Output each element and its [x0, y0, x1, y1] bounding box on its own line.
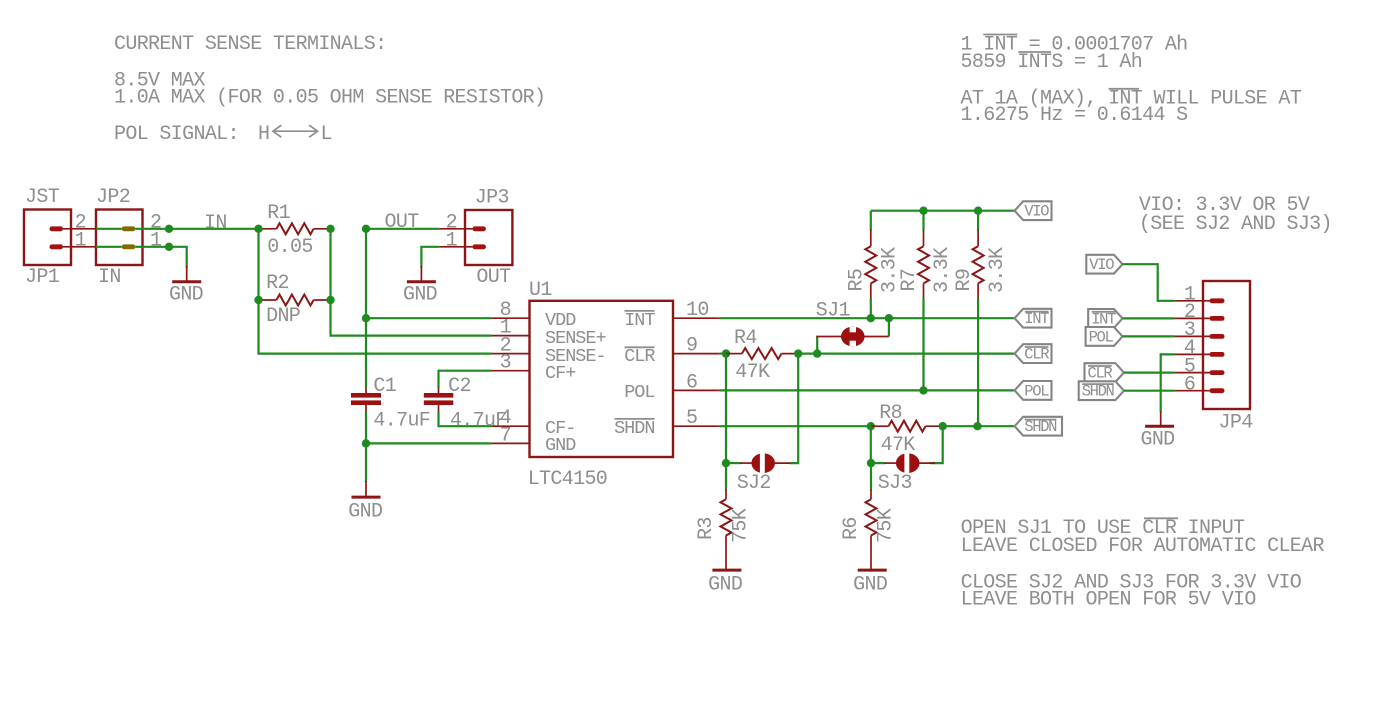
svg-text:1.0A MAX (FOR 0.05 OHM SENSE R: 1.0A MAX (FOR 0.05 OHM SENSE RESISTOR): [114, 87, 545, 110]
wire OUT net row A to JP3: [366, 228, 439, 230]
net flag VIO (rail): [1015, 201, 1052, 220]
connector JP4: [1203, 281, 1250, 409]
net flag POL (JP4): [1086, 327, 1123, 346]
svg-text:10: 10: [686, 299, 709, 322]
svg-text:IN: IN: [98, 266, 121, 289]
ground symbol under R3: [712, 569, 741, 572]
svg-text:GND: GND: [853, 574, 887, 597]
svg-text:R8: R8: [879, 402, 902, 425]
op-amp/IC U1 LTC4150: [530, 301, 674, 457]
svg-text:SHDN: SHDN: [1082, 383, 1115, 401]
svg-text:CLR: CLR: [1024, 346, 1049, 364]
svg-text:LEAVE CLOSED FOR AUTOMATIC CLE: LEAVE CLOSED FOR AUTOMATIC CLEAR: [961, 535, 1325, 558]
svg-text:H: H: [258, 123, 269, 146]
svg-text:GND: GND: [545, 435, 576, 456]
solder jumper SJ2 (open): [722, 459, 730, 467]
wire CF+ net: [439, 371, 492, 388]
junction row B: [165, 243, 173, 251]
JP4 pads and stubs: [1175, 300, 1210, 302]
net flag SHDN: [1015, 417, 1062, 436]
ground symbol at JP4: [1160, 411, 1162, 426]
wire CLR to JP4 pin5: [1124, 372, 1175, 374]
svg-text:6: 6: [1184, 374, 1195, 397]
svg-text:SJ3: SJ3: [878, 472, 912, 495]
wire INT net row: [719, 317, 1014, 319]
net flag INT: [1015, 309, 1052, 328]
svg-text:R4: R4: [734, 327, 757, 350]
svg-text:R5: R5: [846, 269, 869, 292]
ground symbol under C1: [352, 496, 381, 499]
svg-text:C1: C1: [373, 375, 396, 398]
resistor R4 47K: [719, 353, 727, 355]
wire GND branch from JP3 pin1: [421, 247, 438, 268]
svg-text:SJ2: SJ2: [737, 472, 771, 495]
wire SJ2 right branch: [790, 354, 798, 464]
svg-text:GND: GND: [169, 284, 203, 307]
net flag VIO (JP4): [1086, 255, 1122, 274]
wire SHDN to SJ3 left branch: [870, 426, 872, 463]
net flag CLR (JP4): [1085, 363, 1124, 382]
svg-text:SJ1: SJ1: [816, 299, 851, 322]
connector JP2: [96, 210, 143, 266]
svg-text:CLR: CLR: [624, 346, 655, 367]
svg-text:R9: R9: [953, 269, 976, 292]
svg-text:1.6275 Hz = 0.6144 S: 1.6275 Hz = 0.6144 S: [961, 104, 1189, 127]
svg-text:CURRENT SENSE TERMINALS:: CURRENT SENSE TERMINALS:: [114, 33, 386, 56]
wire GND branch from JP2 pin1: [96, 246, 122, 248]
wire IN net (row A): [96, 228, 122, 230]
resistor R8 47K: [867, 422, 875, 430]
wire POL to JP4 pin3: [1123, 335, 1175, 337]
wire VDD net: row A down through C1 to pin 8: [365, 229, 367, 388]
svg-text:POL SIGNAL:: POL SIGNAL:: [114, 123, 239, 146]
wire SHDN net row: [719, 425, 870, 427]
svg-text:JP4: JP4: [1219, 412, 1253, 435]
U1 left pin stubs: [492, 317, 530, 319]
wire SHDN to JP4 pin6: [1124, 390, 1175, 392]
svg-text:POL: POL: [1024, 382, 1049, 400]
svg-text:1: 1: [75, 230, 87, 253]
svg-text:OUT: OUT: [385, 211, 420, 234]
svg-text:75K: 75K: [875, 508, 898, 543]
svg-text:U1: U1: [529, 279, 552, 302]
ground symbol at JP2: [186, 266, 188, 282]
svg-text:VIO: VIO: [1089, 256, 1114, 274]
svg-text:(SEE SJ2 AND SJ3): (SEE SJ2 AND SJ3): [1139, 213, 1332, 236]
svg-text:9: 9: [686, 335, 697, 358]
svg-text:R6: R6: [840, 517, 863, 540]
svg-text:GND: GND: [348, 501, 382, 524]
svg-text:3.3K: 3.3K: [931, 247, 954, 293]
arrow H to L: [273, 125, 318, 137]
ground symbol at JP3: [420, 266, 422, 282]
svg-text:DNP: DNP: [266, 305, 300, 328]
wire CLR to SJ2 branch: [725, 354, 727, 464]
net flag INT (JP4): [1088, 309, 1122, 328]
svg-text:SHDN: SHDN: [1024, 418, 1057, 436]
svg-text:INT: INT: [624, 310, 655, 331]
wire CLR net row: [798, 353, 1014, 355]
JP2 pads: [122, 226, 136, 231]
svg-text:47K: 47K: [735, 361, 770, 384]
wire SENSE+ branch (right of R1): [331, 229, 492, 336]
svg-text:INT: INT: [1091, 310, 1116, 328]
svg-text:JST: JST: [25, 186, 60, 209]
svg-text:3.3K: 3.3K: [986, 247, 1009, 293]
svg-text:4.7uF: 4.7uF: [450, 410, 507, 433]
wire C1 bottom to GND row: [365, 412, 367, 444]
resistor R5 3.3K: [870, 211, 872, 231]
svg-text:0.05: 0.05: [267, 236, 312, 259]
svg-text:R1: R1: [267, 202, 290, 225]
net flag CLR: [1015, 344, 1052, 363]
svg-text:CLR: CLR: [1088, 365, 1113, 383]
svg-text:CF+: CF+: [545, 363, 576, 384]
svg-text:R3: R3: [695, 517, 718, 540]
connector JP1 (JST): [24, 210, 71, 266]
svg-text:LTC4150: LTC4150: [528, 468, 607, 491]
svg-text:POL: POL: [624, 382, 654, 403]
svg-text:1: 1: [446, 230, 458, 253]
solder jumper SJ1 (closed): [816, 337, 818, 354]
ground symbol under R6: [858, 569, 887, 572]
svg-text:5: 5: [686, 407, 697, 430]
svg-text:4.7uF: 4.7uF: [373, 410, 430, 433]
svg-text:5859 INTS = 1 Ah: 5859 INTS = 1 Ah: [961, 51, 1143, 74]
svg-text:6: 6: [686, 371, 697, 394]
wire GND to JP4 pin4: [1161, 354, 1175, 412]
wire SJ3 right branch: [930, 426, 943, 463]
resistor R3 75K: [725, 463, 727, 490]
wire VIO to JP4 pin1: [1123, 264, 1175, 301]
resistor R1 0.05: [259, 228, 277, 230]
wire CF- net: [438, 405, 440, 412]
svg-text:GND: GND: [1140, 429, 1174, 452]
capacitor C2 4.7uF: [424, 393, 454, 398]
svg-text:VIO: VIO: [1024, 203, 1049, 221]
svg-text:OUT: OUT: [476, 266, 511, 289]
svg-text:INT: INT: [1024, 310, 1049, 328]
capacitor C1 4.7uF: [351, 393, 381, 398]
svg-text:POL: POL: [1089, 328, 1114, 346]
net flag POL: [1015, 381, 1052, 400]
wire SENSE- branch (left of R1): [259, 229, 492, 354]
svg-text:C2: C2: [448, 375, 471, 398]
svg-text:SHDN: SHDN: [614, 418, 654, 439]
svg-text:GND: GND: [403, 284, 437, 307]
wire VIO rail: [871, 210, 1015, 212]
resistor R6 75K: [870, 463, 872, 490]
solder jumper SJ3 (open): [867, 459, 875, 467]
svg-text:JP2: JP2: [96, 186, 130, 209]
wire U1 gnd trunk down: [365, 443, 367, 482]
svg-text:L: L: [321, 123, 332, 146]
svg-text:IN: IN: [204, 212, 227, 235]
svg-text:LEAVE BOTH OPEN FOR 5V VIO: LEAVE BOTH OPEN FOR 5V VIO: [961, 589, 1256, 612]
svg-text:JP3: JP3: [475, 187, 509, 210]
svg-text:75K: 75K: [730, 508, 753, 543]
resistor R7 3.3K: [922, 211, 924, 231]
wire POL net row: [719, 389, 1014, 391]
connector JP3: [465, 210, 512, 265]
junction dots row A: [165, 225, 173, 233]
resistor R2 DNP: [259, 299, 277, 301]
svg-text:GND: GND: [708, 574, 742, 597]
wire INT to JP4 pin2: [1123, 317, 1175, 319]
svg-text:1: 1: [150, 230, 162, 253]
junction dots R2: [254, 296, 262, 304]
svg-text:JP1: JP1: [25, 266, 60, 289]
svg-text:3: 3: [500, 352, 511, 375]
svg-text:R7: R7: [898, 269, 921, 292]
net flag SHDN (JP4): [1079, 381, 1124, 400]
resistor R9 3.3K: [977, 211, 979, 231]
U1 right pin stubs: [673, 317, 719, 319]
svg-text:R2: R2: [266, 272, 289, 295]
